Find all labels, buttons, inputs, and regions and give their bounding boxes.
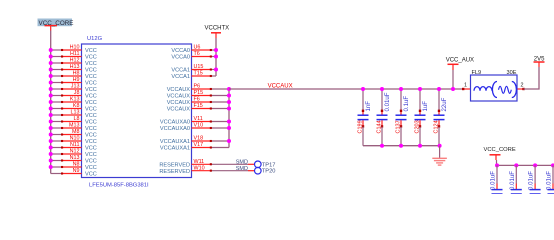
svg-text:VCC: VCC <box>85 126 97 132</box>
pin F15 (VCCAUX) <box>167 103 229 113</box>
svg-text:N10: N10 <box>70 136 80 142</box>
svg-text:L13: L13 <box>71 110 80 116</box>
svg-text:VCC: VCC <box>85 172 97 178</box>
svg-text:H12: H12 <box>70 58 80 64</box>
svg-text:VCCA0: VCCA0 <box>171 55 190 61</box>
svg-text:N8: N8 <box>73 162 80 168</box>
capacitor C199 1nF <box>358 89 372 146</box>
pin N11 (VCC) <box>51 142 97 152</box>
junction on VCC_CORE bus at H13 <box>49 68 53 72</box>
svg-text:V18: V18 <box>194 136 204 142</box>
pin P15 (VCCAUX) <box>167 90 229 100</box>
svg-text:U6: U6 <box>194 45 201 51</box>
svg-text:VCCA1: VCCA1 <box>171 74 190 80</box>
pin V17 (VCCAUXA1) <box>160 142 229 152</box>
junction on VCCAUX wire at C199 <box>361 87 365 91</box>
junction at ground stem <box>438 144 442 148</box>
svg-text:LFE5UM-85F-8BG381I: LFE5UM-85F-8BG381I <box>89 183 149 189</box>
junction on VCC_CORE bus at N8 <box>49 165 53 169</box>
wire VCC_CORE bottom rail <box>497 164 554 166</box>
power symbol VCCHTX <box>205 26 230 39</box>
svg-text:FL9: FL9 <box>472 70 482 76</box>
junction on VCC_CORE rail <box>495 163 499 167</box>
svg-text:N13: N13 <box>70 155 80 161</box>
junction on VCC_CORE bus at J13 <box>49 87 53 91</box>
pin W10 (RESERVED) <box>159 165 254 175</box>
svg-text:VCCHTX: VCCHTX <box>205 26 230 32</box>
svg-text:VCC: VCC <box>85 100 97 106</box>
svg-text:VCC_CORE: VCC_CORE <box>484 147 516 153</box>
svg-text:VCC: VCC <box>85 61 97 67</box>
pin H11 (VCC) <box>51 51 97 61</box>
wire VCCHTX bus <box>215 38 217 76</box>
svg-text:0.01uF: 0.01uF <box>384 92 391 111</box>
svg-text:VCC: VCC <box>85 55 97 61</box>
junction on VCC_CORE bus at J8 <box>49 94 53 98</box>
capacitor C144 0.01uF <box>377 89 391 146</box>
test point TP20 <box>254 167 275 174</box>
svg-text:VCCAUX: VCCAUX <box>167 94 191 100</box>
svg-text:U12G: U12G <box>87 36 103 42</box>
junction on VCC_CORE bus at L13 <box>49 113 53 117</box>
junction on VCCAUX bus <box>227 139 231 143</box>
test point TP17 <box>254 161 275 168</box>
pin U6 (VCCA0) <box>171 45 216 55</box>
junction on VCC_CORE bus at K8 <box>49 107 53 111</box>
pin J13 (VCC) <box>51 84 97 94</box>
capacitor 0.01uF (bottom right bank) <box>528 165 541 194</box>
svg-text:H8: H8 <box>73 71 80 77</box>
pin K13 (VCC) <box>51 97 97 107</box>
junction on VCC_CORE bus at N12 <box>49 152 53 156</box>
svg-text:VCCAUXA1: VCCAUXA1 <box>160 146 190 152</box>
svg-text:VCCAUX: VCCAUX <box>167 107 191 113</box>
svg-text:VCCA1: VCCA1 <box>171 68 190 74</box>
svg-text:H11: H11 <box>70 51 80 57</box>
junction on VCCAUX bus <box>227 120 231 124</box>
junction on bottom rail <box>399 144 403 148</box>
wire VCCAUX net (horizontal run) <box>229 88 463 90</box>
pin F6 (VCCAUX) <box>167 97 229 107</box>
svg-text:VCC: VCC <box>85 139 97 145</box>
power symbol VCC_CORE (bottom right) <box>484 147 516 160</box>
svg-text:K8: K8 <box>73 103 80 109</box>
svg-text:TP20: TP20 <box>262 169 276 175</box>
junction on VCCAUX wire at C124 <box>437 87 441 91</box>
svg-text:C124: C124 <box>434 120 440 133</box>
svg-text:N11: N11 <box>70 142 80 148</box>
pin T15 (VCCA1) <box>171 71 216 81</box>
svg-text:H9: H9 <box>73 77 80 83</box>
ferrite bead FL9 30E <box>462 70 525 101</box>
pin V18 (VCCAUXA1) <box>160 136 229 146</box>
power symbol 2V5 <box>534 56 546 67</box>
junction on VCCAUX bus <box>227 100 231 104</box>
junction on VCCAUX bus <box>227 87 231 91</box>
svg-text:C137: C137 <box>396 120 402 133</box>
svg-text:VCC: VCC <box>85 68 97 74</box>
svg-text:U15: U15 <box>194 64 204 70</box>
svg-text:VCC: VCC <box>85 120 97 126</box>
junction on VCCHTX bus <box>214 68 218 72</box>
svg-text:VCCAUX: VCCAUX <box>167 100 191 106</box>
svg-text:T15: T15 <box>194 71 203 77</box>
junction on VCC_CORE bus at M8 <box>49 133 53 137</box>
junction on VCC_CORE bus at N10 <box>49 139 53 143</box>
wire cap bottom rail <box>363 145 440 147</box>
pin H9 (VCC) <box>51 77 97 87</box>
svg-text:L8: L8 <box>74 116 80 122</box>
junction on VCCAUX wire at C203 <box>418 87 422 91</box>
svg-text:J13: J13 <box>71 84 80 90</box>
svg-text:1: 1 <box>464 83 467 89</box>
pin W11 (RESERVED) <box>159 159 254 169</box>
svg-text:1uF: 1uF <box>422 101 429 112</box>
capacitor C203 1uF <box>415 89 429 146</box>
pin L8 (VCC) <box>51 116 97 126</box>
pin T6 (VCCA0) <box>171 51 216 61</box>
junction on bottom rail <box>380 144 384 148</box>
svg-text:30E: 30E <box>507 70 517 76</box>
pin P6 (VCCAUX) <box>167 84 229 94</box>
wire VCC_CORE drop <box>496 160 498 165</box>
junction VCC_AUX / VCCAUX net <box>451 87 455 91</box>
svg-text:VCCAUXA0: VCCAUXA0 <box>160 126 190 132</box>
svg-text:F6: F6 <box>194 97 200 103</box>
power symbol VCC_AUX <box>446 57 474 70</box>
svg-text:V11: V11 <box>194 116 203 122</box>
svg-text:2V5: 2V5 <box>534 56 545 62</box>
junction on VCC_CORE rail <box>533 163 537 167</box>
svg-text:VCC_AUX: VCC_AUX <box>446 57 474 63</box>
svg-text:M13: M13 <box>69 123 80 129</box>
svg-text:VCCAUXA1: VCCAUXA1 <box>160 139 190 145</box>
capacitor C137 0.1uF <box>396 89 410 146</box>
svg-text:0.01uF: 0.01uF <box>528 171 535 190</box>
junction on VCCHTX bus <box>214 48 218 52</box>
pin M8 (VCC) <box>51 129 97 139</box>
junction on VCCAUX wire at C137 <box>399 87 403 91</box>
junction on VCC_CORE bus at H9 <box>49 81 53 85</box>
pin J8 (VCC) <box>51 90 97 100</box>
svg-text:VCC: VCC <box>85 159 97 165</box>
svg-text:1nF: 1nF <box>365 101 372 112</box>
ground <box>432 146 447 165</box>
junction on VCC_CORE rail <box>551 163 554 167</box>
svg-text:N12: N12 <box>70 149 80 155</box>
pin M13 (VCC) <box>51 123 97 133</box>
junction on VCC_CORE bus at N11 <box>49 146 53 150</box>
pin N8 (VCC) <box>51 162 97 172</box>
pin H12 (VCC) <box>51 58 97 67</box>
IC U12G body <box>82 44 192 178</box>
pin N10 (VCC) <box>51 136 97 146</box>
svg-text:RESERVED: RESERVED <box>159 163 190 169</box>
svg-text:VCC: VCC <box>85 94 97 100</box>
pin N13 (VCC) <box>51 155 97 165</box>
svg-text:V10: V10 <box>194 123 204 129</box>
junction on VCC_CORE bus at M13 <box>49 126 53 130</box>
capacitor 0.01uF (bottom right bank) <box>546 165 554 194</box>
pin N12 (VCC) <box>51 149 97 159</box>
svg-text:F15: F15 <box>194 103 203 109</box>
wire VCCAUX vertical bus <box>228 89 230 148</box>
svg-text:VCC: VCC <box>85 152 97 158</box>
junction on VCC_CORE rail <box>514 163 518 167</box>
junction on VCC_CORE bus at N13 <box>49 159 53 163</box>
svg-text:K13: K13 <box>70 97 80 103</box>
svg-text:V17: V17 <box>194 142 204 148</box>
wire VCC_AUX drop <box>452 70 454 89</box>
svg-text:VCC: VCC <box>85 87 97 93</box>
svg-text:H13: H13 <box>70 64 80 70</box>
svg-text:C144: C144 <box>377 120 383 133</box>
svg-text:VCCAUX: VCCAUX <box>167 87 191 93</box>
svg-text:VCC_CORE: VCC_CORE <box>39 20 74 27</box>
svg-text:VCC: VCC <box>85 107 97 113</box>
capacitor 0.01uF (bottom right bank) <box>490 165 503 194</box>
pin L13 (VCC) <box>51 110 97 120</box>
svg-text:C203: C203 <box>415 120 421 133</box>
svg-text:2: 2 <box>521 83 524 89</box>
svg-text:W10: W10 <box>194 165 205 171</box>
svg-text:P15: P15 <box>194 90 204 96</box>
svg-text:22uF: 22uF <box>441 97 448 111</box>
svg-text:VCCAUXA0: VCCAUXA0 <box>160 120 190 126</box>
wire FL9 pin2 to 2V5 <box>524 67 540 89</box>
svg-text:RESERVED: RESERVED <box>159 169 190 175</box>
svg-text:VCCAUX: VCCAUX <box>268 83 293 89</box>
pin H13 (VCC) <box>51 64 97 74</box>
junction on VCCAUX wire at C144 <box>380 87 384 91</box>
svg-text:VCC: VCC <box>85 81 97 87</box>
pin U15 (VCCA1) <box>171 64 216 74</box>
svg-text:P6: P6 <box>194 84 201 90</box>
svg-text:VCC: VCC <box>85 48 97 54</box>
svg-text:SMD: SMD <box>236 166 248 172</box>
svg-text:J8: J8 <box>74 90 80 96</box>
svg-text:C199: C199 <box>358 120 364 133</box>
junction on VCC_CORE bus at K13 <box>49 100 53 104</box>
svg-text:T6: T6 <box>194 51 200 57</box>
svg-text:VCC: VCC <box>85 113 97 119</box>
svg-text:H10: H10 <box>70 45 80 51</box>
pin H10 (VCC) <box>51 45 97 55</box>
junction on VCCHTX bus <box>214 55 218 59</box>
svg-text:M8: M8 <box>72 129 80 135</box>
junction on VCCAUX bus <box>227 94 231 98</box>
wire VCC_CORE vertical bus <box>50 31 52 174</box>
junction on VCCAUX bus <box>227 126 231 130</box>
junction on VCC_CORE bus at H11 <box>49 55 53 59</box>
capacitor C124 22uF <box>434 89 448 146</box>
junction on VCC_CORE bus at H10 <box>49 48 53 52</box>
junction on VCC_CORE bus at H12 <box>49 61 53 65</box>
junction on bottom rail <box>418 144 422 148</box>
svg-text:VCC: VCC <box>85 133 97 139</box>
pin K8 (VCC) <box>51 103 97 113</box>
svg-text:VCC: VCC <box>85 146 97 152</box>
svg-text:TP17: TP17 <box>262 162 276 168</box>
junction on VCCAUX bus <box>227 107 231 111</box>
junction on VCC_CORE bus at L8 <box>49 120 53 124</box>
pin N9 (VCC) <box>51 168 97 178</box>
svg-text:VCC: VCC <box>85 165 97 171</box>
power symbol VCC_CORE (selected/highlighted) <box>38 19 74 31</box>
svg-text:VCCA0: VCCA0 <box>171 48 190 54</box>
svg-text:0.01uF: 0.01uF <box>546 171 553 190</box>
svg-text:0.1uF: 0.1uF <box>403 96 410 112</box>
svg-text:0.01uF: 0.01uF <box>509 171 516 190</box>
pin V11 (VCCAUXA0) <box>160 116 229 126</box>
svg-text:N9: N9 <box>73 168 80 174</box>
svg-text:W11: W11 <box>194 159 205 165</box>
pin V10 (VCCAUXA0) <box>160 123 229 133</box>
svg-text:SMD: SMD <box>236 160 248 166</box>
svg-text:0.01uF: 0.01uF <box>490 171 497 190</box>
capacitor 0.01uF (bottom right bank) <box>509 165 522 194</box>
junction on VCC_CORE bus at H8 <box>49 74 53 78</box>
pin H8 (VCC) <box>51 71 97 81</box>
svg-text:VCC: VCC <box>85 74 97 80</box>
